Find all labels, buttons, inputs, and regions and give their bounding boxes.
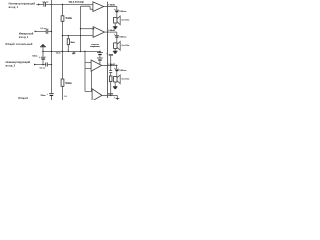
node input1/V2 xyxy=(62,4,64,6)
node inv-input1/V1 xyxy=(51,31,53,33)
node ref/V3 xyxy=(80,51,82,53)
chassis symbol under ref wire xyxy=(72,51,75,54)
wire A1 output xyxy=(104,6,117,8)
op-amp A1 xyxy=(93,2,104,12)
ground under speaker 2 xyxy=(113,51,118,53)
svg-text:вход 1: вход 1 xyxy=(9,6,19,9)
ground under speaker 1 xyxy=(113,27,118,29)
svg-text:TDA7050B: TDA7050B xyxy=(68,0,83,4)
svg-text:1000 мк: 1000 мк xyxy=(119,70,127,72)
op-amp A2 xyxy=(93,27,104,38)
ground under speaker 3 xyxy=(113,87,118,89)
svg-text:Общий: Общий xyxy=(18,97,28,100)
wire output2 down xyxy=(116,32,118,43)
terminal inverting input 1 xyxy=(35,31,38,33)
svg-text:0,1 мк: 0,1 мк xyxy=(40,28,47,30)
capacitor 1000мк out2 xyxy=(115,35,119,37)
terminal input 2 xyxy=(34,64,37,66)
svg-text:ВЫХ 1: ВЫХ 1 xyxy=(110,5,116,7)
wire ground branch xyxy=(42,47,44,65)
wire A2 output xyxy=(105,31,117,33)
label: опорное напряжение xyxy=(90,44,101,48)
svg-text:50 кОм: 50 кОм xyxy=(66,18,73,20)
wire output1 down xyxy=(116,7,118,18)
svg-text:ВЫХ 2: ВЫХ 2 xyxy=(110,30,116,32)
capacitor 100мк bottom of V1 xyxy=(49,92,54,94)
wire V3 to amp2 noninv input xyxy=(81,28,94,30)
resistor R3 50 кОм feedback xyxy=(67,36,69,52)
svg-text:100 мк: 100 мк xyxy=(40,95,46,97)
loudspeaker 2 xyxy=(114,41,121,50)
wire input 2 xyxy=(36,64,52,66)
svg-text:50 кОм: 50 кОм xyxy=(70,42,75,44)
node input2/ground-branch xyxy=(42,64,44,66)
svg-text:Общий сигнальный: Общий сигнальный xyxy=(5,43,33,46)
capacitor C2 0,1 мк xyxy=(46,29,48,34)
capacitor 1000мк out3 xyxy=(115,68,119,70)
capacitor C1 0,1 мк xyxy=(44,2,46,7)
resistor R1 50 кОм xyxy=(61,16,64,21)
op-amp A4 xyxy=(92,89,102,101)
label: Неинвертирующий вход 2 xyxy=(6,61,31,67)
svg-text:Гр 4 Ом: Гр 4 Ом xyxy=(122,18,130,21)
wire input 1 xyxy=(36,4,93,6)
wire inverting input 1 xyxy=(36,30,51,32)
node ref/V2 xyxy=(62,51,64,53)
wire rail V2 xyxy=(62,5,64,101)
node ref/V1 xyxy=(51,51,53,53)
capacitor C3 0,1 мк xyxy=(46,63,48,67)
capacitor out4 cut xyxy=(116,98,120,100)
wire A3 output xyxy=(102,64,117,66)
svg-text:50 кОм: 50 кОм xyxy=(65,83,72,85)
reference voltage source (battery) xyxy=(99,51,101,64)
node ref/V4 xyxy=(84,51,86,53)
svg-text:напряжение: напряжение xyxy=(90,46,101,48)
node input2/V1 xyxy=(51,64,53,66)
op-amp A3 xyxy=(91,60,102,71)
svg-text:ВЫХ 3: ВЫХ 3 xyxy=(110,64,116,66)
svg-text:ВЫХ 4: ВЫХ 4 xyxy=(108,93,114,96)
wire rail V5 xyxy=(90,71,92,91)
wire rail V4 xyxy=(85,51,92,91)
wire rail V1 xyxy=(50,0,52,100)
terminal input 1 xyxy=(38,4,41,6)
node rail/out3 xyxy=(110,65,112,67)
svg-text:100 мк: 100 мк xyxy=(32,56,38,58)
wire speaker1 to ground xyxy=(114,23,116,27)
IC boundary right edge xyxy=(106,2,108,98)
ground (signal) symbol xyxy=(40,45,46,47)
svg-text:Гр 4 Ом: Гр 4 Ом xyxy=(122,77,130,80)
svg-text:Неинвертирующий: Неинвертирующий xyxy=(9,2,36,5)
svg-text:1000 мк: 1000 мк xyxy=(119,37,127,39)
wire speaker2 to ground xyxy=(114,49,116,52)
wire A4 output xyxy=(102,94,117,96)
label: Инверсный вход 1 xyxy=(19,33,34,39)
svg-text:1000 мк: 1000 мк xyxy=(119,11,127,13)
wire reference row xyxy=(43,50,100,52)
wire output3 down xyxy=(116,65,118,76)
svg-text:0,1 мк: 0,1 мк xyxy=(42,1,49,3)
wire speaker3 to ground xyxy=(114,82,116,87)
wire output4 down xyxy=(116,95,118,100)
svg-text:вход 1: вход 1 xyxy=(19,36,29,39)
loudspeaker 1 xyxy=(114,16,121,25)
node input1/V1 xyxy=(51,4,53,6)
capacitor 1000мк out1 xyxy=(115,9,119,11)
resistor R2 50 кОм xyxy=(61,79,64,86)
loudspeaker 3 xyxy=(114,75,121,84)
node ref/branch xyxy=(42,51,44,53)
wire rail V3 reference distribution xyxy=(81,6,93,51)
node out3 corner xyxy=(116,65,118,67)
resistor on rail xyxy=(109,76,112,82)
svg-text:Гр 4 Ом: Гр 4 Ом xyxy=(122,44,130,47)
wire supply rail xyxy=(110,55,112,96)
wire amp2 inv input from V2 xyxy=(63,35,94,37)
capacitor 100 мк (signal ground) xyxy=(41,56,46,58)
label: Неинвертирующий вход 1 xyxy=(9,2,36,9)
svg-text:вход 2: вход 2 xyxy=(6,64,16,67)
svg-text:0,1 мк: 0,1 мк xyxy=(40,68,46,70)
capacitor on rail xyxy=(109,71,112,73)
node rail/out4 xyxy=(110,95,112,97)
